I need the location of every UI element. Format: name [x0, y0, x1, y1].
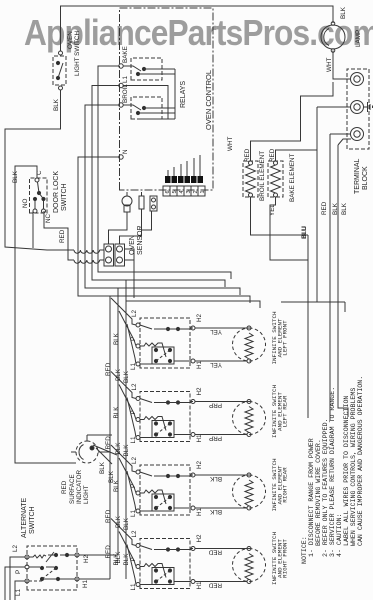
svg-text:5: 5	[172, 190, 178, 193]
wires sensor connector to sensor	[109, 211, 152, 244]
svg-text:DOOR LOCK: DOOR LOCK	[53, 171, 60, 213]
svg-text:3: 3	[186, 190, 192, 193]
svg-text:RED: RED	[105, 545, 112, 559]
oven light switch	[53, 56, 66, 85]
svg-text:RED: RED	[105, 509, 112, 523]
svg-text:BROIL: BROIL	[122, 84, 129, 103]
oven sensor resistor	[139, 196, 144, 209]
svg-text:RIGHT FRONT: RIGHT FRONT	[282, 539, 289, 578]
svg-text:H2: H2	[196, 313, 203, 322]
svg-text:H1: H1	[196, 360, 203, 369]
relay bake contact	[123, 66, 175, 76]
infinite switch box	[140, 318, 190, 368]
svg-text:NC: NC	[45, 213, 52, 223]
svg-text:RED: RED	[208, 549, 222, 556]
surface element	[195, 547, 266, 584]
ground	[364, 102, 373, 112]
svg-text:ALTERNATE: ALTERNATE	[21, 497, 28, 538]
svg-text:RED: RED	[244, 148, 251, 162]
wire taps	[111, 519, 136, 546]
wire taps	[111, 298, 136, 325]
svg-text:BLK: BLK	[99, 461, 106, 474]
svg-text:YEL: YEL	[210, 361, 222, 368]
svg-text:H2: H2	[196, 387, 203, 396]
switch bus lines	[109, 296, 111, 579]
svg-text:PRP: PRP	[209, 435, 222, 442]
terminal BAKE	[119, 64, 123, 68]
svg-text:BLU: BLU	[301, 225, 308, 238]
alt switch H wires	[79, 555, 118, 579]
svg-text:RIGHT REAR: RIGHT REAR	[282, 467, 289, 503]
oven sensor bulb	[122, 192, 132, 218]
svg-text:1: 1	[200, 190, 206, 193]
surface element	[195, 400, 266, 437]
oven control box	[120, 8, 214, 190]
svg-text:LIGHT: LIGHT	[83, 485, 90, 504]
svg-text:L2: L2	[131, 456, 138, 464]
svg-text:WHT: WHT	[227, 137, 234, 151]
relay broil contact	[123, 105, 175, 115]
svg-text:H2: H2	[196, 534, 203, 543]
wire: lamp WHT to terminal 1	[333, 51, 350, 80]
svg-text:BLOCK: BLOCK	[362, 166, 369, 190]
lamp	[321, 22, 345, 53]
svg-text:P: P	[15, 570, 22, 574]
svg-text:LABEL ALL WIRES PRIOR TO DISCO: LABEL ALL WIRES PRIOR TO DISCONNECTION	[343, 396, 350, 546]
svg-text:INDICATOR: INDICATOR	[76, 469, 83, 504]
svg-text:OVEN CONTROL: OVEN CONTROL	[204, 70, 213, 130]
svg-text:L2: L2	[131, 309, 138, 317]
svg-text:BROIL ELEMENT: BROIL ELEMENT	[259, 151, 266, 201]
sensor connector pair	[104, 244, 114, 266]
wire taps	[111, 372, 136, 399]
connector 6..1	[163, 186, 205, 196]
svg-text:WHT: WHT	[326, 58, 333, 72]
svg-text:PRP: PRP	[209, 402, 222, 409]
svg-text:RED: RED	[105, 436, 112, 450]
svg-text:H1: H1	[196, 581, 203, 590]
svg-text:NOTICE:: NOTICE:	[301, 536, 308, 564]
svg-text:LEFT FRONT: LEFT FRONT	[282, 320, 289, 356]
svg-text:BLK: BLK	[12, 170, 19, 183]
bake element	[271, 161, 281, 197]
svg-text:OVEN: OVEN	[67, 31, 74, 49]
svg-text:RED: RED	[208, 582, 222, 589]
svg-text:1- DISCONNECT RANGE FROM POWER: 1- DISCONNECT RANGE FROM POWER	[308, 438, 315, 557]
terminal L1	[119, 83, 123, 87]
svg-text:2- REFER ONLY TO FEATURES EQUI: 2- REFER ONLY TO FEATURES EQUIPPED.	[322, 419, 329, 558]
NOTICE	[301, 376, 364, 564]
svg-text:6: 6	[165, 190, 171, 193]
svg-text:WHEN SERVICING CONTROLS, WIRIN: WHEN SERVICING CONTROLS, WIRING PROBLEMS	[350, 388, 357, 546]
svg-text:L2: L2	[131, 383, 138, 391]
wire: door lock NO	[32, 211, 34, 248]
svg-text:NO: NO	[22, 198, 29, 208]
svg-text:RED: RED	[105, 362, 112, 376]
alt switch leads	[5, 557, 25, 600]
terminal BROIL	[119, 103, 123, 107]
svg-text:BEFORE REMOVING WIRE COVER.: BEFORE REMOVING WIRE COVER.	[315, 439, 322, 546]
svg-text:N: N	[122, 149, 129, 154]
wire: door lock NC / RED feed	[44, 211, 74, 260]
element wires	[251, 82, 334, 161]
svg-text:BLK: BLK	[340, 6, 347, 19]
svg-text:RED: RED	[269, 148, 276, 162]
surface element	[195, 473, 266, 510]
bus: oven control terminals to left	[98, 66, 231, 279]
wire: door lock C to trunk	[15, 166, 76, 463]
wire: lamp loop from oven light switch	[61, 6, 334, 51]
svg-text:SWITCH: SWITCH	[61, 183, 68, 211]
svg-text:RED: RED	[61, 480, 68, 494]
svg-text:L2: L2	[12, 544, 19, 552]
infinite switch box	[140, 392, 190, 442]
svg-text:H1: H1	[196, 434, 203, 443]
svg-text:YEL: YEL	[210, 328, 222, 335]
svg-text:H1: H1	[196, 507, 203, 516]
svg-text:BLK: BLK	[113, 332, 120, 345]
wire taps	[111, 445, 136, 472]
svg-text:RED: RED	[59, 229, 66, 243]
svg-text:LAMP: LAMP	[355, 30, 362, 47]
svg-text:H2: H2	[83, 554, 90, 563]
terminal N	[119, 155, 123, 159]
svg-text:L1: L1	[15, 588, 22, 596]
svg-text:RELAYS: RELAYS	[180, 81, 187, 108]
svg-text:H2: H2	[196, 460, 203, 469]
svg-text:2: 2	[193, 190, 199, 193]
door lock switch	[30, 178, 48, 213]
svg-text:LIGHT SWITCH: LIGHT SWITCH	[74, 31, 81, 76]
relay broil box	[131, 97, 162, 119]
svg-text:SURFACE: SURFACE	[69, 474, 76, 504]
svg-text:L2: L2	[131, 530, 138, 538]
wire: oven light switch BLK down-left	[5, 90, 74, 250]
surface indicator light	[71, 435, 98, 463]
svg-text:BAKE: BAKE	[122, 46, 129, 63]
light wires	[87, 435, 117, 464]
trunk risers to terminal block	[317, 79, 350, 134]
svg-text:BAKE ELEMENT: BAKE ELEMENT	[289, 154, 296, 202]
svg-text:4: 4	[179, 190, 185, 193]
bus wires to connector bottom	[125, 249, 135, 272]
svg-text:OVEN: OVEN	[129, 235, 136, 255]
oven sensor connector	[150, 196, 157, 211]
alternate switch	[27, 546, 77, 590]
svg-text:BLK: BLK	[113, 406, 120, 419]
svg-text:L1: L1	[122, 75, 129, 83]
svg-text:BLK: BLK	[113, 479, 120, 492]
svg-text:4- CAUTION:: 4- CAUTION:	[336, 513, 343, 557]
svg-text:H1: H1	[82, 579, 89, 588]
infinite switch box	[140, 465, 190, 515]
surface element	[195, 326, 266, 363]
svg-text:LEFT REAR: LEFT REAR	[282, 395, 289, 427]
wire bumps on feed 1	[74, 250, 104, 253]
svg-text:BLK: BLK	[209, 508, 222, 515]
svg-text:TERMINAL: TERMINAL	[354, 159, 361, 195]
infinite switch box	[140, 539, 190, 589]
watermark	[24, 12, 373, 54]
relay connecting wires	[123, 69, 175, 119]
svg-text:BLK: BLK	[53, 98, 60, 111]
connector pin row	[165, 176, 203, 183]
terminal block	[347, 69, 369, 149]
svg-text:BLK: BLK	[341, 202, 348, 215]
relay bake box	[131, 58, 162, 80]
power trunks	[307, 235, 309, 418]
svg-text:BLK: BLK	[332, 202, 339, 215]
broil element	[246, 161, 256, 197]
svg-text:BLK: BLK	[209, 475, 222, 482]
svg-text:CAN CAUSE IMPROPER AND DANGERO: CAN CAUSE IMPROPER AND DANGEROUS OPERATI…	[357, 376, 364, 546]
svg-text:SWITCH: SWITCH	[29, 506, 36, 534]
svg-text:RED: RED	[321, 201, 328, 215]
